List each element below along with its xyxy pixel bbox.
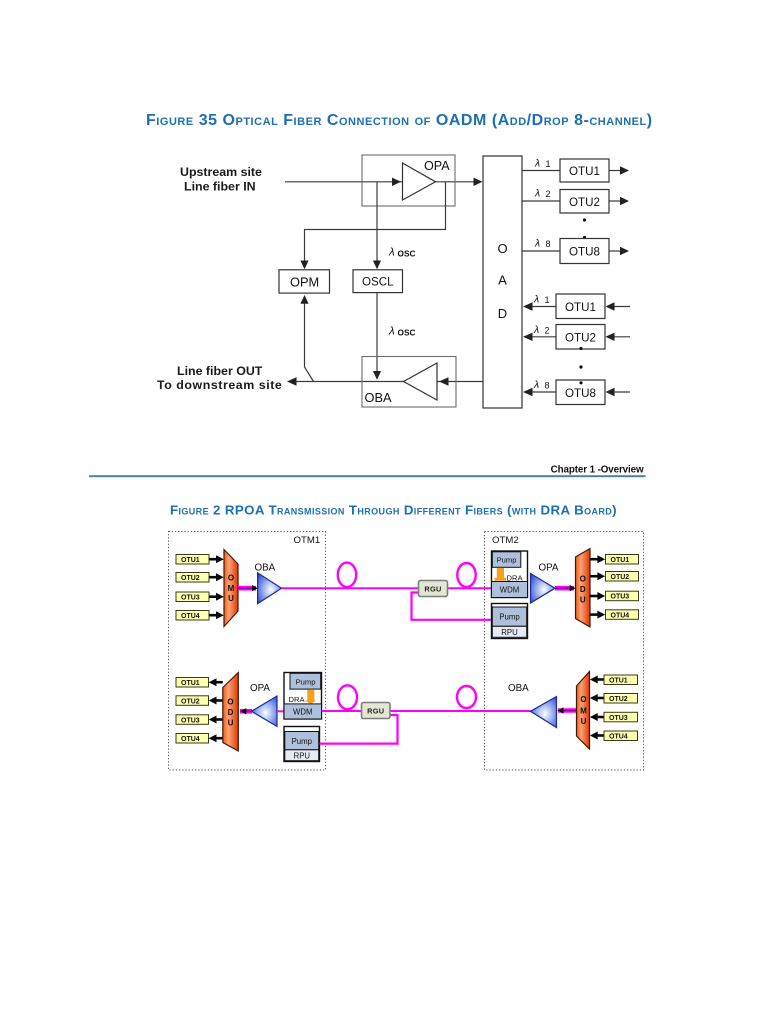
svg-text:OPM: OPM bbox=[290, 274, 319, 289]
OTU2 box (add) bbox=[556, 325, 605, 350]
svg-text:OTU8: OTU8 bbox=[569, 246, 600, 259]
wire: drop lambda8 bbox=[522, 250, 560, 252]
arrow out of OTU2 bbox=[609, 197, 629, 205]
arrow OTU1 to OMU (OTM2 low) bbox=[590, 676, 604, 684]
OAD letters bbox=[497, 241, 507, 321]
arrow into OTU2 (add) bbox=[606, 333, 631, 341]
svg-text:M: M bbox=[580, 707, 587, 716]
svg-text:O: O bbox=[580, 695, 586, 704]
svg-text:RGU: RGU bbox=[424, 584, 441, 593]
OTM2 dashed enclosure bbox=[485, 532, 644, 771]
arrow OTU3 to OMU bbox=[209, 593, 224, 601]
arrowhead into OBA amplifier bbox=[439, 377, 449, 386]
OBA box bbox=[362, 357, 456, 408]
svg-text:OBA: OBA bbox=[508, 683, 529, 694]
arrow ODU to OTU4 (OTM2 up) bbox=[590, 611, 605, 619]
link OPA to ODU (OTM1 low) bbox=[240, 708, 252, 714]
wire: add lambda8 into OAD bbox=[525, 391, 556, 393]
svg-text:OTU4: OTU4 bbox=[609, 734, 628, 741]
link OMU to OBA (OTM2 low) bbox=[558, 707, 577, 713]
OBA amplifier triangle bbox=[404, 363, 438, 400]
svg-text:8: 8 bbox=[546, 239, 551, 249]
OTU3 box (OTM2 low) bbox=[604, 712, 638, 722]
svg-text:OTU1: OTU1 bbox=[181, 680, 200, 687]
svg-text:OBA: OBA bbox=[365, 390, 392, 405]
OBA label (OTM2 low) bbox=[508, 683, 529, 694]
upper fiber line bbox=[282, 587, 492, 589]
svg-text:OTU2: OTU2 bbox=[181, 575, 200, 582]
DRA board assembly (OTM1 low) bbox=[284, 673, 322, 720]
wire: OSCL down to OBA bbox=[376, 293, 378, 377]
arrow ODU to OTU1 (OTM2 up) bbox=[590, 555, 605, 563]
pump RPU unit (OTM1 low) bbox=[284, 727, 320, 762]
OTU1 box (OTM1 low) bbox=[176, 678, 209, 688]
arrowhead add lambda2 bbox=[523, 333, 533, 341]
chapter header rule bbox=[89, 475, 646, 477]
DRA board assembly (OTM2 up) bbox=[492, 551, 528, 598]
svg-text:O: O bbox=[580, 575, 586, 584]
dots between OTU2 and OTU8 (drop) bbox=[583, 218, 586, 239]
wire: drop lambda2 bbox=[522, 200, 560, 202]
OPA amplifier triangle (OTM2 up) bbox=[531, 574, 556, 604]
DRA label (OTM2 up) bbox=[507, 574, 524, 583]
svg-text:U: U bbox=[581, 717, 587, 726]
svg-text:OTU2: OTU2 bbox=[611, 574, 630, 581]
svg-text:Pump: Pump bbox=[499, 613, 520, 622]
svg-text:RGU: RGU bbox=[367, 706, 384, 715]
svg-text:To downstream site: To downstream site bbox=[157, 378, 282, 392]
label: line fiber out / to downstream site bbox=[157, 364, 282, 392]
svg-text:λ: λ bbox=[534, 188, 540, 200]
arrowhead into OBA line bbox=[373, 371, 381, 380]
RGU box (upper) bbox=[419, 581, 448, 597]
svg-text:OTU2: OTU2 bbox=[569, 196, 600, 209]
OTU8 box (drop) bbox=[560, 239, 609, 264]
OTM2 label bbox=[492, 535, 519, 546]
OSCL label bbox=[362, 276, 394, 289]
svg-text:WDM: WDM bbox=[293, 708, 313, 717]
label lambda 8 (drop) bbox=[534, 238, 551, 250]
arrowhead output to downstream bbox=[287, 377, 297, 386]
OTU2 box (drop) bbox=[560, 190, 609, 214]
link OMU to OBA amplifier bbox=[238, 585, 258, 591]
svg-text:U: U bbox=[228, 719, 234, 728]
svg-text:OTU8: OTU8 bbox=[565, 387, 596, 400]
wire: add lambda1 into OAD bbox=[525, 306, 556, 308]
lower fiber loop 2 bbox=[457, 686, 476, 708]
lower fiber loop 1 bbox=[338, 685, 357, 709]
OAD box bbox=[483, 156, 522, 408]
arrow into OTU8 (add) bbox=[606, 388, 631, 396]
pump unit inside DRA (OTM1 low) bbox=[290, 673, 321, 689]
figure 35 caption bbox=[146, 112, 653, 129]
svg-text:OTU3: OTU3 bbox=[609, 715, 628, 722]
svg-text:1: 1 bbox=[545, 295, 550, 305]
wire: OSC drop from main line to OSCL bbox=[376, 182, 378, 267]
svg-text:O: O bbox=[497, 241, 507, 256]
svg-text:Chapter 1 -Overview: Chapter 1 -Overview bbox=[551, 464, 644, 475]
OTU2 box (OTM2 up) bbox=[606, 572, 639, 582]
label lambda 2 (add) bbox=[533, 324, 550, 336]
svg-text:OTU4: OTU4 bbox=[181, 736, 200, 743]
OTU8 box (add) bbox=[556, 380, 605, 405]
arrow ODU to OTU2 (OTM2 up) bbox=[590, 572, 605, 580]
svg-text:Line fiber OUT: Line fiber OUT bbox=[177, 364, 263, 378]
svg-text:Figure 2 RPOA Transmission Thr: Figure 2 RPOA Transmission Through Diffe… bbox=[170, 503, 617, 518]
arrow ODU to OTU3 (OTM1 low) bbox=[209, 716, 223, 724]
link OPA to ODU bbox=[555, 585, 576, 591]
svg-text:OTM2: OTM2 bbox=[492, 535, 519, 546]
svg-text:OTU1: OTU1 bbox=[565, 301, 596, 314]
label lambda 1 (drop) bbox=[534, 158, 551, 170]
arrow OTU4 to OMU bbox=[209, 611, 224, 619]
arrow OTU3 to OMU (OTM2 low) bbox=[590, 713, 604, 721]
label: lambda OSC (lower) bbox=[388, 326, 415, 338]
OTU3 box (OTM1 low) bbox=[176, 715, 209, 725]
svg-text:OTU1: OTU1 bbox=[181, 557, 200, 564]
ODU demultiplexer trapezoid (OTM1 low) bbox=[223, 673, 239, 752]
arrow OTU4 to OMU (OTM2 low) bbox=[590, 732, 604, 740]
OTU2 box (OTM2 low) bbox=[604, 694, 638, 704]
arrowhead into OPM top bbox=[300, 261, 308, 270]
OTU2 box (OTM1 up) bbox=[176, 573, 209, 583]
arrow OTU2 to OMU (OTM2 low) bbox=[590, 694, 604, 702]
link WDM to OPA (OTM1 low) bbox=[277, 710, 284, 712]
OTU1 box (drop) bbox=[560, 159, 609, 182]
svg-text:λ: λ bbox=[533, 379, 539, 391]
svg-text:OTU4: OTU4 bbox=[181, 613, 200, 620]
wire: tap from output line up to OPM bottom bbox=[305, 298, 314, 382]
svg-text:8: 8 bbox=[545, 381, 550, 391]
arrow into OTU1 (add) bbox=[606, 302, 631, 310]
svg-text:D: D bbox=[580, 585, 586, 594]
arrowhead into OAD bbox=[474, 178, 483, 186]
arrowhead into OPM bottom bbox=[300, 295, 308, 304]
arrowhead add lambda8 bbox=[523, 388, 533, 396]
wire: output line from OAD through OBA bbox=[290, 381, 483, 383]
OTU4 box (OTM1 up) bbox=[176, 611, 209, 621]
OMU multiplexer trapezoid (OTM2 low) bbox=[577, 672, 590, 750]
svg-text:Pump: Pump bbox=[292, 737, 313, 746]
chapter header text bbox=[551, 464, 644, 475]
label lambda 1 (add) bbox=[533, 294, 550, 306]
OMU multiplexer trapezoid (OTM1 up) bbox=[224, 550, 238, 627]
arrowhead add lambda1 bbox=[523, 302, 533, 310]
label: upstream site / line fiber in bbox=[180, 165, 262, 194]
svg-text:O: O bbox=[227, 698, 233, 707]
OTU4 box (OTM2 low) bbox=[604, 731, 638, 741]
ODU demultiplexer trapezoid (OTM2 up) bbox=[576, 549, 591, 628]
arrow ODU to OTU1 (OTM1 low) bbox=[209, 678, 223, 686]
svg-text:λ: λ bbox=[534, 238, 540, 250]
svg-text:λ: λ bbox=[533, 324, 539, 336]
svg-text:OTU1: OTU1 bbox=[569, 165, 600, 178]
svg-text:OTU2: OTU2 bbox=[609, 696, 628, 703]
svg-text:λ: λ bbox=[534, 158, 540, 170]
upper fiber loop 2 bbox=[457, 563, 475, 587]
OSCL box bbox=[353, 270, 403, 293]
arrow ODU to OTU2 (OTM1 low) bbox=[209, 697, 223, 705]
svg-text:Line fiber IN: Line fiber IN bbox=[184, 180, 256, 194]
OPA label (OTM2 up) bbox=[539, 563, 559, 574]
svg-text:OTU2: OTU2 bbox=[181, 698, 200, 705]
svg-text:λ: λ bbox=[388, 247, 395, 259]
arrow ODU to OTU3 (OTM2 up) bbox=[590, 592, 605, 600]
OTU4 box (OTM1 low) bbox=[176, 734, 209, 744]
OPA label (OTM1 low) bbox=[250, 683, 270, 694]
svg-text:U: U bbox=[580, 596, 586, 605]
svg-text:OPA: OPA bbox=[539, 563, 559, 574]
label lambda 8 (add) bbox=[533, 379, 550, 391]
svg-text:M: M bbox=[228, 584, 235, 593]
arrowhead into OPA amplifier bbox=[392, 178, 401, 186]
svg-text:U: U bbox=[228, 594, 234, 603]
upper pump return line to OTM2 pump bbox=[412, 593, 494, 620]
wire: drop lambda1 bbox=[522, 170, 560, 172]
svg-text:OTU1: OTU1 bbox=[609, 678, 628, 685]
arrow OTU1 to OMU bbox=[209, 555, 224, 563]
DRA label (OTM1 low) bbox=[289, 695, 306, 704]
svg-text:DRA: DRA bbox=[289, 695, 306, 704]
svg-text:OBA: OBA bbox=[255, 563, 276, 574]
OPA box bbox=[362, 155, 455, 206]
wire: tap from OPA output down and left to OPM bbox=[305, 182, 446, 267]
label: lambda OSC (upper) bbox=[388, 247, 415, 259]
OBA amplifier triangle (OTM2 low) bbox=[531, 697, 557, 728]
svg-text:OSC: OSC bbox=[398, 249, 416, 259]
svg-text:OTM1: OTM1 bbox=[294, 535, 321, 546]
OPA amplifier triangle (OTM1 low) bbox=[252, 696, 278, 727]
pump unit inside DRA (OTM2 up) bbox=[492, 552, 521, 568]
OTU1 box (OTM2 low) bbox=[604, 675, 638, 685]
OPA amplifier triangle bbox=[403, 163, 436, 200]
svg-text:1: 1 bbox=[546, 159, 551, 169]
arrow ODU to OTU4 (OTM1 low) bbox=[209, 734, 223, 742]
OPM box bbox=[279, 270, 330, 293]
arrow out of OTU1 bbox=[609, 166, 629, 174]
OTU3 box (OTM2 up) bbox=[606, 591, 639, 601]
svg-text:OTU4: OTU4 bbox=[611, 612, 630, 619]
svg-text:OTU3: OTU3 bbox=[181, 595, 200, 602]
svg-text:A: A bbox=[498, 273, 507, 288]
svg-text:Pump: Pump bbox=[296, 677, 316, 686]
OTM1 label bbox=[294, 535, 321, 546]
svg-text:OTU2: OTU2 bbox=[565, 332, 596, 345]
WDM unit (OTM2 up) bbox=[492, 582, 528, 598]
upper fiber loop 1 bbox=[338, 563, 356, 587]
OBA label (OTM1 up) bbox=[255, 563, 276, 574]
OTU1 box (OTM2 up) bbox=[606, 555, 639, 565]
orange pump arrow (OTM1 low) bbox=[304, 690, 316, 704]
label lambda 2 (drop) bbox=[534, 188, 551, 200]
pump RPU unit (OTM2 up) bbox=[492, 604, 528, 639]
arrow OTU2 to OMU bbox=[209, 573, 224, 581]
wire: main input line bbox=[285, 181, 481, 183]
svg-text:RPU: RPU bbox=[294, 751, 311, 760]
OPA label bbox=[424, 159, 450, 173]
svg-text:OSC: OSC bbox=[398, 328, 416, 338]
OTM1 dashed enclosure bbox=[169, 532, 326, 771]
dots between OTU2 and OTU8 (add) bbox=[579, 347, 582, 385]
OTU1 box (OTM1 up) bbox=[176, 555, 209, 565]
WDM unit (OTM1 low) bbox=[284, 704, 322, 719]
svg-text:OPA: OPA bbox=[424, 159, 450, 173]
svg-text:WDM: WDM bbox=[500, 586, 520, 595]
svg-text:OSCL: OSCL bbox=[362, 276, 394, 289]
svg-text:D: D bbox=[498, 306, 507, 321]
OTU4 box (OTM2 up) bbox=[606, 610, 639, 620]
svg-text:RPU: RPU bbox=[501, 628, 518, 637]
svg-text:D: D bbox=[228, 708, 234, 717]
OTU2 box (OTM1 low) bbox=[176, 696, 209, 706]
OPM label bbox=[290, 274, 319, 289]
svg-text:Pump: Pump bbox=[497, 556, 517, 565]
svg-text:λ: λ bbox=[388, 326, 395, 338]
OBA amplifier triangle (OTM1 up) bbox=[258, 573, 282, 604]
svg-text:2: 2 bbox=[545, 326, 550, 336]
RGU box (lower) bbox=[362, 703, 391, 719]
svg-text:2: 2 bbox=[546, 189, 551, 199]
svg-text:OTU3: OTU3 bbox=[181, 717, 200, 724]
OTU1 box (add) bbox=[556, 294, 605, 319]
svg-text:O: O bbox=[228, 574, 234, 583]
svg-text:Figure 35 Optical Fiber Connec: Figure 35 Optical Fiber Connection of OA… bbox=[146, 112, 653, 129]
svg-text:Upstream site: Upstream site bbox=[180, 165, 262, 179]
arrow out of OTU8 bbox=[609, 247, 629, 255]
orange pump arrow (OTM2 up) bbox=[495, 568, 507, 581]
OTU3 box (OTM1 up) bbox=[176, 592, 209, 602]
wire: add lambda2 into OAD bbox=[525, 336, 556, 338]
OBA label bbox=[365, 390, 392, 405]
arrowhead into OSCL top bbox=[373, 261, 381, 270]
lower pump return line to OTM1 pump bbox=[320, 715, 398, 744]
svg-text:OTU1: OTU1 bbox=[611, 557, 630, 564]
figure 2 caption bbox=[170, 503, 617, 518]
svg-text:λ: λ bbox=[533, 294, 539, 306]
svg-text:OTU3: OTU3 bbox=[611, 594, 630, 601]
lower fiber line bbox=[322, 710, 531, 712]
svg-text:OPA: OPA bbox=[250, 683, 270, 694]
